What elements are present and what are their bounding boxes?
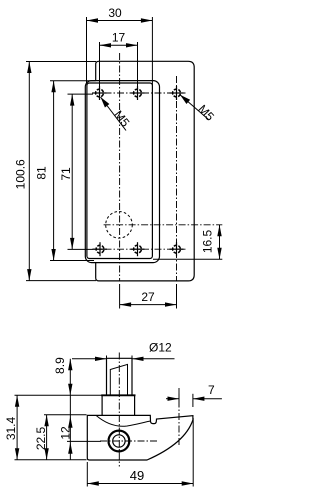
svg-text:22.5: 22.5 (34, 426, 48, 450)
svg-text:M5: M5 (195, 102, 217, 124)
svg-text:Ø12: Ø12 (149, 340, 172, 354)
svg-text:12: 12 (59, 426, 73, 440)
svg-text:27: 27 (141, 290, 155, 304)
svg-text:49: 49 (130, 468, 144, 483)
svg-text:17: 17 (112, 31, 126, 45)
svg-text:100.6: 100.6 (13, 159, 27, 189)
svg-text:30: 30 (108, 6, 122, 20)
svg-text:M5: M5 (111, 108, 132, 130)
svg-text:71: 71 (59, 167, 73, 181)
svg-text:31.4: 31.4 (4, 416, 18, 440)
svg-text:81: 81 (34, 166, 48, 180)
svg-text:8.9: 8.9 (53, 357, 67, 374)
svg-text:16.5: 16.5 (201, 229, 215, 253)
svg-text:7: 7 (208, 383, 215, 397)
